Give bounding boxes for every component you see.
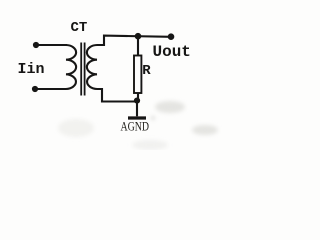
wire resistor bottom lead (137, 93, 139, 102)
node Iin bottom terminal (32, 86, 38, 92)
transformer CT core (81, 43, 84, 96)
node Iin top terminal (33, 42, 39, 48)
node junction at resistor bottom / AGND (134, 98, 140, 104)
node junction at resistor top (135, 33, 142, 40)
wire top-left from Iin terminal to primary (36, 44, 67, 46)
transformer CT primary winding (66, 45, 76, 89)
svg-text:Uout: Uout (153, 43, 191, 61)
svg-text:CT: CT (71, 20, 88, 36)
wire AGND stem (136, 101, 138, 116)
wire bottom-left from Iin terminal to primary (35, 88, 66, 90)
svg-text:R: R (142, 63, 151, 79)
wire secondary bottom stub and bottom rail (97, 89, 137, 102)
wire resistor top lead (137, 36, 139, 55)
node Uout terminal (168, 33, 175, 40)
svg-text:Iin: Iin (18, 61, 45, 78)
background paper (0, 0, 222, 150)
svg-text:AGND: AGND (121, 120, 150, 134)
resistor R (134, 56, 141, 94)
wire secondary top stub to top rail (97, 36, 171, 45)
transformer CT secondary winding (87, 45, 97, 89)
ground AGND bar (128, 116, 146, 119)
